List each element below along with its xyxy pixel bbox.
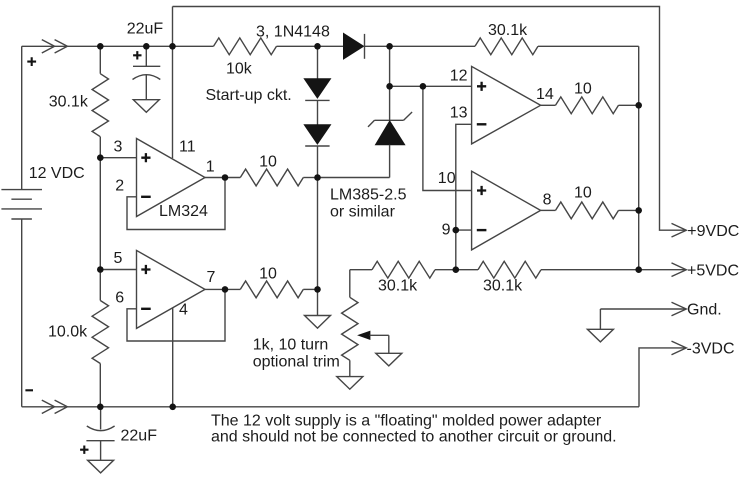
svg-text:12: 12 <box>450 68 468 85</box>
wire R7 to rail <box>619 209 639 211</box>
battery + sign <box>27 57 36 66</box>
label Gnd. <box>687 302 722 319</box>
junction node 20 <box>635 207 642 214</box>
wire pin5 <box>100 269 136 271</box>
label 30.1k (R9) <box>378 277 418 294</box>
junction node 4 <box>314 43 321 50</box>
label LM385-2.5 <box>330 187 407 204</box>
input arrow + (double chevron) <box>42 40 68 53</box>
svg-text:1k, 10 turn: 1k, 10 turn <box>253 337 329 354</box>
label or similar <box>330 203 396 220</box>
svg-text:9: 9 <box>442 222 451 239</box>
wire pin4 to bottom rail <box>172 308 174 407</box>
wire pin12 <box>390 85 472 87</box>
wire divider mid seg <box>435 269 478 271</box>
note line 1 <box>211 412 602 429</box>
wire ref node to zener <box>318 177 390 179</box>
pin label 12 <box>450 68 468 85</box>
svg-text:2: 2 <box>115 178 124 195</box>
pin label 8 <box>543 192 552 209</box>
wire +5VDC lead <box>639 269 686 271</box>
label 10 (R7) <box>574 184 592 201</box>
wire R5 to ref node <box>303 288 317 290</box>
svg-text:8: 8 <box>543 192 552 209</box>
svg-text:1: 1 <box>206 158 215 175</box>
resistor R1 30.1k (left) <box>92 74 108 137</box>
resistor R6 10 <box>556 97 619 114</box>
junction node 14 <box>386 83 393 90</box>
svg-text:+5VDC: +5VDC <box>687 262 739 279</box>
wire Gnd lead <box>600 308 685 310</box>
pin label 10 <box>438 170 456 187</box>
op-amp U1D - input <box>477 229 487 231</box>
svg-text:30.1k: 30.1k <box>488 22 528 39</box>
input arrow - (double chevron) <box>42 400 68 413</box>
label +5VDC <box>687 262 739 279</box>
wire output rail vertical <box>638 46 640 269</box>
junction node 2 <box>143 43 150 50</box>
label 22uF bottom <box>121 428 158 445</box>
wire pin9 <box>456 229 472 231</box>
svg-text:10: 10 <box>438 170 456 187</box>
wire rail to pot <box>350 269 372 271</box>
wire top frame (+9VDC rail) <box>173 7 686 231</box>
wire pin11 riser <box>172 7 174 159</box>
svg-text:+9VDC: +9VDC <box>687 223 739 240</box>
diode D1 1N4148 <box>344 33 365 59</box>
op-amp U1C LM324 <box>472 66 541 143</box>
wire pin10 branch <box>423 86 472 190</box>
wire U1A output <box>205 177 240 179</box>
svg-text:13: 13 <box>450 105 468 122</box>
svg-text:10: 10 <box>259 154 277 171</box>
wire D2-D3 <box>317 100 319 124</box>
svg-text:10: 10 <box>574 80 592 97</box>
wire main positive rail <box>22 45 214 47</box>
wire positive rail seg3 <box>365 45 476 47</box>
svg-text:Gnd.: Gnd. <box>687 302 722 319</box>
junction node 19 <box>635 102 642 109</box>
op-amp U1D LM324 <box>472 171 541 250</box>
svg-text:optional trim: optional trim <box>253 353 340 370</box>
wire zener anode <box>389 145 391 178</box>
junction node 7 <box>97 266 104 273</box>
wire diode chain top <box>317 46 319 79</box>
wire R6 to rail <box>619 104 639 106</box>
wire positive rail seg2 <box>277 45 344 47</box>
junction node 11 <box>314 174 321 181</box>
junction node 6 <box>97 154 104 161</box>
op-amp U1C - input <box>477 123 487 125</box>
wire to 30.1k top <box>99 46 101 73</box>
junction node 3 <box>169 43 176 50</box>
svg-text:-3VDC: -3VDC <box>687 341 735 358</box>
resistor R10 30.1k <box>478 261 541 278</box>
wire Gnd drop <box>599 309 601 329</box>
svg-text:30.1k: 30.1k <box>49 94 89 111</box>
note line 2 <box>211 429 617 446</box>
capacitor C1 + sign <box>133 51 141 59</box>
op-amp U1B LM324 <box>137 250 206 328</box>
svg-text:12 VDC: 12 VDC <box>29 165 85 182</box>
label 30.1k (R8) <box>488 22 528 39</box>
svg-text:7: 7 <box>207 269 216 286</box>
battery B1 12VDC <box>1 190 42 219</box>
svg-text:or similar: or similar <box>330 203 396 220</box>
potentiometer P1 1k <box>342 297 358 360</box>
capacitor C2 + sign <box>80 446 88 454</box>
battery - sign <box>25 389 33 391</box>
ground below C2 <box>88 460 114 473</box>
label 10.0k <box>48 324 88 341</box>
op-amp U1D + input <box>477 186 486 195</box>
pin label 11 <box>179 138 196 155</box>
pin label 14 <box>536 86 554 103</box>
label -3VDC <box>687 341 735 358</box>
resistor R8 30.1k <box>475 38 538 55</box>
output arrow +5VDC <box>672 263 687 277</box>
capacitor C2 22uF bottom <box>86 407 114 461</box>
label 30.1k (R10) <box>483 277 523 294</box>
resistor R9 30.1k <box>372 261 435 278</box>
wire battery negative lead <box>21 219 23 407</box>
svg-text:LM324: LM324 <box>159 203 208 220</box>
wire U1A feedback <box>127 178 225 230</box>
wire bottom negative rail <box>22 406 639 408</box>
pin label 7 <box>207 269 216 286</box>
svg-text:Start-up ckt.: Start-up ckt. <box>206 87 292 104</box>
pin label 2 <box>115 178 124 195</box>
wire pot bottom <box>349 360 351 376</box>
pot wiper arrow <box>358 331 389 353</box>
wire left battery lead <box>21 46 23 189</box>
svg-text:10: 10 <box>574 184 592 201</box>
diode D3 1N4148 <box>304 125 330 146</box>
resistor R3 10k <box>214 38 277 55</box>
op-amp U1B - input <box>141 308 151 310</box>
wire R4 to ref node <box>303 177 317 179</box>
op-amp U1A + input <box>141 153 150 162</box>
wire U1B output <box>205 288 240 290</box>
wire U1C output <box>541 104 556 106</box>
resistor R5 10 <box>240 281 303 298</box>
junction node 1 <box>97 43 104 50</box>
wire zener cathode <box>389 46 391 120</box>
label Start-up ckt. <box>206 87 292 104</box>
op-amp U1C + input <box>477 82 486 91</box>
svg-text:4: 4 <box>179 301 188 318</box>
junction node 18 <box>635 266 642 273</box>
pin label 1 <box>206 158 215 175</box>
svg-text:30.1k: 30.1k <box>483 277 523 294</box>
svg-text:3, 1N4148: 3, 1N4148 <box>256 23 330 40</box>
pin label 9 <box>442 222 451 239</box>
svg-text:10k: 10k <box>226 61 253 78</box>
svg-text:30.1k: 30.1k <box>378 277 418 294</box>
ground below C1 <box>133 100 159 113</box>
pin label 13 <box>450 105 468 122</box>
output arrow +9VDC <box>672 223 687 237</box>
op-amp U1A LM324 <box>137 139 206 217</box>
junction node 13 <box>314 286 321 293</box>
svg-text:10: 10 <box>259 265 277 282</box>
wire pot top <box>349 270 351 298</box>
op-amp U1A - input <box>141 196 151 198</box>
ground at Gnd output <box>587 329 613 342</box>
label +9VDC <box>687 223 739 240</box>
wire R10 to rail <box>541 269 639 271</box>
junction node 8 <box>97 404 104 411</box>
output arrow -3VDC <box>672 341 687 355</box>
svg-text:22uF: 22uF <box>127 20 164 37</box>
pin label 6 <box>115 289 124 306</box>
ground below pot <box>337 377 363 390</box>
wire divider mid <box>99 137 101 301</box>
label 10 (R4) <box>259 154 277 171</box>
junction node 9 <box>169 404 176 411</box>
label 10 (R5) <box>259 265 277 282</box>
label 1k, 10 turn <box>253 337 329 354</box>
junction node 16 <box>453 227 460 234</box>
svg-text:14: 14 <box>536 86 554 103</box>
pin label 5 <box>114 250 123 267</box>
svg-text:10.0k: 10.0k <box>48 324 88 341</box>
svg-text:11: 11 <box>179 138 196 155</box>
svg-text:6: 6 <box>115 289 124 306</box>
ground below wiper <box>376 353 402 366</box>
svg-text:3: 3 <box>114 138 123 155</box>
label 12 VDC <box>29 165 85 182</box>
wire 10.0k to bottom rail <box>99 364 101 407</box>
svg-text:The 12 volt supply is a "float: The 12 volt supply is a "floating" molde… <box>211 412 602 429</box>
capacitor C1 22uF top <box>133 46 161 99</box>
wire U1D output <box>541 209 556 211</box>
label optional trim <box>253 353 340 370</box>
wire U1B feedback <box>127 289 225 341</box>
label 22uF top <box>127 20 164 37</box>
junction node 12 <box>222 286 229 293</box>
junction node 5 <box>386 43 393 50</box>
output arrow Gnd <box>672 302 687 316</box>
resistor R4 10 <box>240 169 303 186</box>
label 10 (R6) <box>574 80 592 97</box>
resistor R2 10.0k <box>92 301 108 364</box>
junction node 15 <box>420 83 427 90</box>
svg-text:LM385-2.5: LM385-2.5 <box>330 187 407 204</box>
zener U2 LM385-2.5 <box>368 112 412 145</box>
junction node 17 <box>453 266 460 273</box>
pin label 4 <box>179 301 188 318</box>
label 30.1k left <box>49 94 89 111</box>
junction node 10 <box>222 174 229 181</box>
svg-text:22uF: 22uF <box>121 428 158 445</box>
resistor R7 10 <box>556 202 619 219</box>
label 10k <box>226 61 253 78</box>
svg-text:and should not be connected to: and should not be connected to another c… <box>211 429 617 446</box>
label LM324 <box>159 203 208 220</box>
wire reference node vertical <box>317 146 319 316</box>
pin label 3 <box>114 138 123 155</box>
wire -3VDC riser <box>639 348 686 407</box>
label 3, 1N4148 <box>256 23 330 40</box>
wire positive rail seg4 <box>538 45 639 47</box>
wire pin13 stub <box>456 124 472 269</box>
diode D2 1N4148 <box>304 79 330 101</box>
wire pin3 <box>100 157 136 159</box>
ground reference node <box>305 316 331 329</box>
svg-text:5: 5 <box>114 250 123 267</box>
op-amp U1B + input <box>141 265 150 274</box>
